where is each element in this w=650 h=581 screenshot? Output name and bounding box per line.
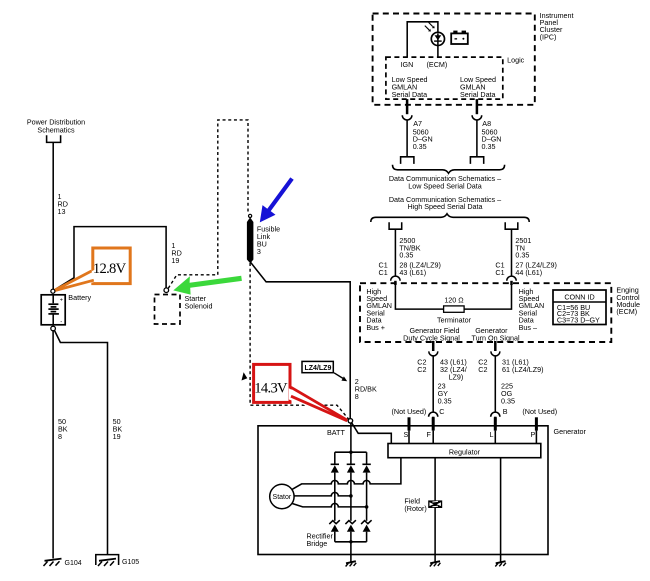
field rotor winding [428, 500, 442, 508]
svg-text:0.35: 0.35 [501, 397, 515, 406]
label High Speed GMLAN Serial Data Bus - [519, 287, 545, 332]
terminal L [494, 417, 497, 430]
label 2501 TN 0.35 [515, 236, 531, 260]
Engine Control Module box [360, 283, 611, 342]
wire F to regulator [432, 431, 434, 444]
wire regulator to field [434, 458, 436, 501]
svg-text:(Not Used): (Not Used) [392, 407, 427, 416]
svg-text:LZ9): LZ9) [449, 373, 464, 382]
node phase 3 junction [365, 505, 369, 509]
wire lamp to logic [437, 45, 439, 57]
label 27 (LZ4/LZ9) 44 (L61) [515, 260, 557, 277]
label C2 pins left [417, 358, 426, 375]
label 50 BK 19 [113, 417, 123, 441]
label 1 RD 19 [171, 241, 181, 265]
svg-text:IGN: IGN [401, 60, 414, 69]
diode bottom column 3 [361, 520, 372, 542]
svg-text:Duty Cycle Signal: Duty Cycle Signal [403, 333, 460, 342]
arrowhead on dashed route [242, 372, 248, 380]
label Instrument Panel Cluster (IPC) [540, 11, 574, 42]
label High Speed GMLAN Serial Data Bus + [366, 287, 392, 332]
node bottom bus junction [349, 540, 352, 543]
wire stator phase 1 to regulator [292, 458, 401, 490]
wire dashed cable route from solenoid to fusible link [168, 120, 248, 288]
terminal F [432, 417, 435, 430]
ground G104 [44, 559, 62, 566]
svg-text:High Speed Serial Data: High Speed Serial Data [407, 202, 482, 211]
svg-text:Serial Data: Serial Data [460, 90, 496, 99]
wire A7 stub [406, 99, 409, 114]
svg-text:(ECM): (ECM) [616, 307, 637, 316]
LZ4/LZ9 tag [302, 361, 347, 381]
wire stub into ECM left [394, 281, 397, 285]
node battery negative terminal [51, 326, 56, 331]
wire terminator right [464, 283, 511, 309]
connector arc generator B [491, 412, 500, 417]
wire BATT to rectifier bridge [350, 423, 352, 452]
wire bridge top bus [335, 451, 367, 453]
svg-text:8: 8 [355, 392, 359, 401]
svg-text:LZ4/LZ9: LZ4/LZ9 [305, 365, 332, 372]
Instrument Panel Cluster box [373, 14, 535, 105]
wire P to regulator [535, 431, 537, 444]
svg-text:0.35: 0.35 [482, 142, 496, 151]
wire field to ground [434, 508, 436, 562]
wire 2501 TN [511, 229, 513, 276]
svg-text:19: 19 [113, 432, 121, 441]
connector arc generator C [429, 412, 438, 417]
svg-text:3: 3 [257, 247, 261, 256]
svg-text:14.3V: 14.3V [254, 381, 288, 397]
wire bridge to ground [350, 542, 352, 562]
label Enging Control Module (ECM) [616, 286, 640, 317]
label Low Speed GMLAN Serial Data left [392, 75, 428, 99]
connector C1 arc left [391, 276, 400, 281]
svg-text:L: L [490, 430, 494, 439]
svg-text:Battery: Battery [68, 293, 91, 302]
svg-text:C1: C1 [379, 268, 388, 277]
ground rectifier bridge [346, 561, 357, 566]
svg-text:Stator: Stator [273, 494, 292, 501]
wire dashed cable route from fusible link to BATT [250, 263, 348, 419]
label Generator Field Duty Cycle Signal [403, 326, 460, 342]
svg-text:Bus –: Bus – [519, 323, 537, 332]
wire A7 to off-page [406, 120, 408, 156]
diode bottom column 1 [329, 520, 340, 542]
off-page connector high speed bus plus [389, 222, 402, 229]
wire ground 50 BK 8 [52, 331, 54, 559]
label 28 (LZ4/LZ9) 43 (L61) [399, 260, 441, 277]
svg-text:S: S [404, 430, 409, 439]
svg-text:Low Speed Serial Data: Low Speed Serial Data [408, 181, 482, 190]
wire IGN to charge indicator [407, 22, 438, 57]
fusible link BU 3 [247, 217, 254, 263]
wire into F terminal [432, 417, 435, 422]
svg-text:12.8V: 12.8V [93, 261, 127, 277]
svg-text:Serial Data: Serial Data [392, 90, 428, 99]
svg-text:C2: C2 [478, 365, 487, 374]
wire ground branch 50 BK 19 [55, 331, 108, 555]
svg-text:43 (L61): 43 (L61) [399, 268, 426, 277]
starter solenoid box [155, 295, 181, 325]
wire 23 GY left [432, 356, 434, 412]
svg-text:13: 13 [58, 207, 66, 216]
wire S to regulator [408, 431, 410, 444]
svg-text:8: 8 [58, 432, 62, 441]
svg-text:C3=73 D–GY: C3=73 D–GY [557, 315, 600, 324]
label 23 GY 0.35 [438, 382, 452, 406]
label Rectifier Bridge [307, 532, 334, 549]
ground field [430, 561, 441, 566]
svg-text:Solenoid: Solenoid [185, 302, 213, 311]
wire 225 OG right [494, 356, 496, 412]
wire stub into ECM right [510, 281, 513, 285]
svg-text:Terminator: Terminator [437, 315, 472, 324]
label Field (Rotor) [404, 496, 426, 513]
wire regulator to ground [500, 458, 502, 562]
svg-text:C2: C2 [417, 365, 426, 374]
off-page connector A8 [470, 157, 483, 164]
node starter solenoid terminal [164, 288, 169, 293]
svg-text:-: - [60, 319, 62, 325]
off-page connector A7 [401, 157, 414, 164]
label Data Communication Schematics - Low Speed Serial Data [389, 174, 501, 190]
svg-text:120 Ω: 120 Ω [444, 296, 464, 305]
wire A8 to off-page [476, 120, 478, 156]
wire A8 stub [476, 99, 479, 114]
label 2500 TN/BK 0.35 [399, 236, 420, 260]
node battery positive terminal [51, 289, 55, 293]
svg-text:(ECM): (ECM) [427, 60, 448, 69]
wire stub C2 left [432, 341, 435, 351]
svg-text:C: C [439, 407, 444, 416]
label Generator Turn On Signal [472, 326, 520, 342]
svg-text:0.35: 0.35 [515, 251, 529, 260]
stator [270, 484, 294, 508]
label 50 BK 8 [58, 417, 68, 441]
wire into L terminal [494, 417, 497, 422]
connector C2 arc left [429, 351, 438, 356]
wire battery feed 1 RD 13 [52, 142, 54, 289]
wire 2500 TN/BK [394, 229, 396, 276]
wire L to regulator [494, 431, 496, 444]
connector C2 arc right [491, 351, 500, 356]
label Fusible Link BU 3 [257, 225, 280, 257]
label Starter Solenoid [185, 294, 213, 311]
blue arrow [260, 177, 294, 222]
diode top column 1 [331, 452, 339, 521]
resistor terminator 120 ohm [444, 306, 465, 312]
diode bottom column 2 [345, 520, 356, 542]
svg-text:0.35: 0.35 [438, 397, 452, 406]
wire bridge bottom bus [335, 541, 367, 543]
svg-text:+: + [60, 297, 63, 303]
green arrow [173, 276, 242, 295]
svg-text:Turn On Signal: Turn On Signal [472, 333, 520, 342]
battery telltale icon [451, 31, 468, 44]
CONN ID table [553, 290, 606, 325]
svg-text:Bridge: Bridge [307, 539, 328, 548]
wire branch to starter solenoid 1 RD 19 [55, 227, 166, 290]
svg-text:Schematics: Schematics [37, 126, 75, 135]
svg-text:Regulator: Regulator [449, 447, 481, 456]
svg-text:BATT: BATT [327, 428, 345, 437]
label 5060 D-GN 0.35 left [413, 127, 433, 151]
ground G105 bracket [96, 555, 119, 565]
svg-text:G104: G104 [65, 560, 82, 567]
svg-text:CONN ID: CONN ID [564, 293, 594, 302]
terminal S [408, 417, 411, 430]
svg-text:Generator: Generator [554, 427, 587, 436]
label C2 pins right [478, 358, 487, 375]
label 225 OG 0.35 [501, 382, 515, 406]
brace high speed serial data [371, 214, 529, 222]
node fusible link top [249, 214, 252, 217]
off-page connector high speed bus minus [505, 222, 518, 229]
wire BATT to regulator [352, 423, 392, 444]
label 2 RD/BK 8 [355, 377, 377, 401]
svg-text:(Not Used): (Not Used) [522, 407, 557, 416]
battery [41, 295, 65, 326]
wire stator phase 2 [294, 492, 351, 496]
label 5060 D-GN 0.35 right [482, 127, 502, 151]
svg-text:C1: C1 [495, 268, 504, 277]
svg-text:B: B [503, 407, 508, 416]
svg-text:61 (LZ4/LZ9): 61 (LZ4/LZ9) [502, 365, 544, 374]
callout 14.3V [254, 364, 353, 423]
svg-text:(Rotor): (Rotor) [404, 504, 426, 513]
svg-text:0.35: 0.35 [399, 251, 413, 260]
node bus junction [349, 451, 352, 454]
wire stub C2 right [494, 341, 497, 351]
brace low speed serial data [393, 165, 505, 174]
off-page connector to Power Distribution [47, 135, 61, 142]
svg-text:Logic: Logic [507, 56, 525, 65]
connector C arc A7 [402, 115, 412, 120]
ground regulator [495, 561, 506, 566]
node BATT terminal [348, 419, 352, 423]
connector C1 arc right [507, 276, 516, 281]
svg-text:P: P [531, 430, 536, 439]
wire terminator left [395, 283, 443, 309]
ground G105 [98, 559, 116, 566]
node phase 2 junction [349, 494, 353, 498]
svg-text:F: F [427, 430, 432, 439]
generator box [258, 426, 548, 555]
terminal P [535, 417, 538, 430]
svg-text:(IPC): (IPC) [540, 32, 557, 41]
wire from fusible link to generator BATT [250, 262, 350, 419]
svg-text:44 (L61): 44 (L61) [515, 268, 542, 277]
label 1 RD 13 [58, 192, 68, 216]
label Data Communication Schematics - High Speed Serial Data [389, 195, 501, 211]
diode top column 2 [347, 452, 355, 521]
svg-text:Bus +: Bus + [366, 323, 385, 332]
lamp light arrows [425, 22, 435, 31]
callout 12.8V [51, 248, 130, 293]
svg-text:0.35: 0.35 [413, 142, 427, 151]
charge indicator lamp [431, 32, 444, 45]
regulator [388, 444, 541, 458]
label Power Distribution Schematics [27, 118, 85, 135]
label 43 (L61) 32 (LZ4/LZ9) [440, 358, 467, 382]
svg-text:G105: G105 [122, 559, 139, 566]
logic box [386, 57, 503, 99]
label C1 pins left [379, 260, 388, 277]
wire stator phase 3 [292, 503, 367, 507]
label 31 (L61) 61 (LZ4/LZ9) [502, 358, 544, 375]
label Low Speed GMLAN Serial Data right [460, 75, 496, 99]
label C1 pins right [495, 260, 504, 277]
diode top column 3 [362, 452, 370, 521]
svg-text:19: 19 [171, 256, 179, 265]
connector C arc A8 [472, 115, 482, 120]
